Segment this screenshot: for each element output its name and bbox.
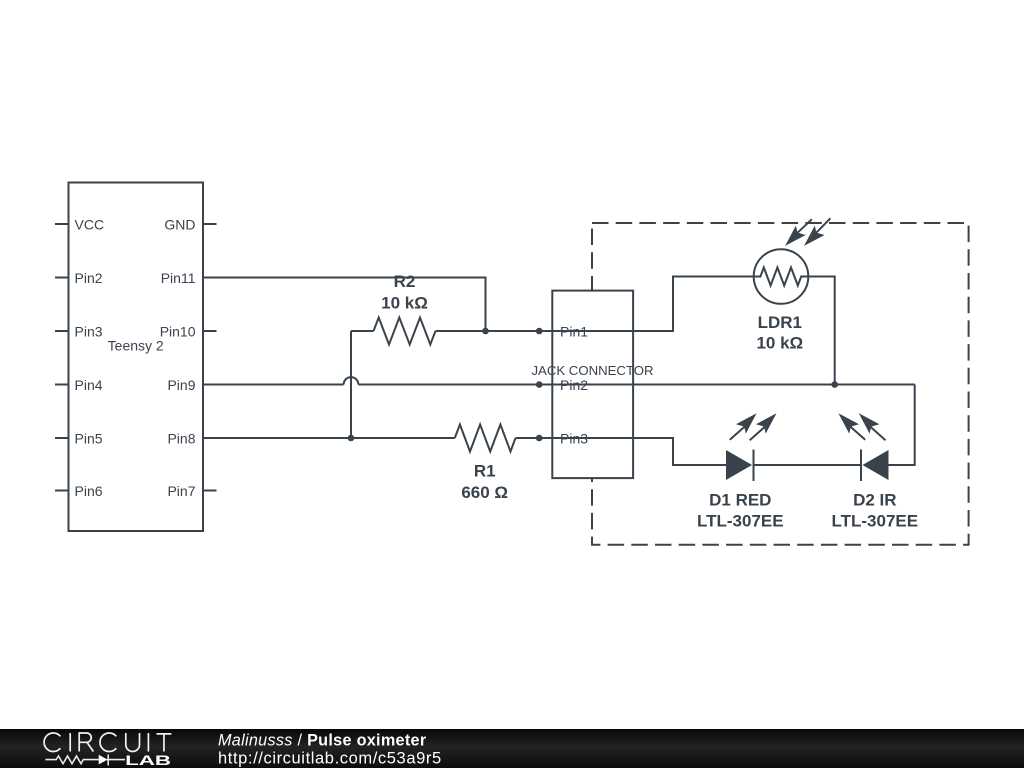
svg-text:VCC: VCC <box>75 216 105 232</box>
diode D1 triangle <box>726 450 752 480</box>
photoresistor LDR1 circle <box>754 249 809 304</box>
wire Pin9 to jack Pin2 with hop <box>203 384 344 386</box>
svg-text:GND: GND <box>164 216 195 232</box>
svg-text:Pin2: Pin2 <box>75 270 103 286</box>
wire Pin11 to R2 right node <box>203 278 486 332</box>
pin Pin6 stub <box>55 490 69 492</box>
LDR1 arrowhead 1 <box>785 226 806 246</box>
logo CIRCUIT text <box>44 733 171 752</box>
D2 arrowhead 2 <box>859 413 880 433</box>
pin Pin4 stub <box>55 384 69 386</box>
pin GND stub <box>203 223 217 225</box>
svg-text:Malinusss / Pulse oximeter: Malinusss / Pulse oximeter <box>218 732 427 750</box>
pin Pin2 stub <box>55 277 69 279</box>
D2 arrowhead 1 <box>838 413 859 433</box>
svg-text:http://circuitlab.com/c53a9r5: http://circuitlab.com/c53a9r5 <box>218 750 442 768</box>
pin VCC stub <box>55 223 69 225</box>
svg-text:Pin4: Pin4 <box>75 377 103 393</box>
svg-text:660 Ω: 660 Ω <box>461 483 508 502</box>
LDR1 arrowhead 2 <box>804 226 825 246</box>
dashed enclosure box <box>592 223 969 545</box>
pin Pin5 stub <box>55 437 69 439</box>
logo diode triangle <box>99 755 108 765</box>
svg-text:Pin5: Pin5 <box>75 430 103 446</box>
logo squiggle resistor-diode <box>45 755 125 766</box>
pin Pin3 stub <box>55 330 69 332</box>
svg-text:Pin6: Pin6 <box>75 483 103 499</box>
wire hop over vertical <box>344 377 359 384</box>
wire R2 right lead to jack Pin1 <box>436 330 553 332</box>
wire Pin8 to R1 <box>203 437 455 439</box>
LDR1 light arrow 2 line <box>814 218 831 235</box>
resistor R1 zigzag <box>455 425 516 452</box>
wire vertical R2 left to Pin8 net <box>350 331 352 438</box>
pin Pin10 stub <box>203 330 217 332</box>
junction node R2 right <box>482 328 489 335</box>
svg-text:Pin2: Pin2 <box>560 377 588 393</box>
svg-text:Pin3: Pin3 <box>75 323 103 339</box>
pin Pin7 stub <box>203 490 217 492</box>
wire LDR right to Pin2 net <box>808 277 834 385</box>
wire right vertical down to D2 <box>889 385 915 466</box>
wire jack Pin1 inside <box>552 330 633 332</box>
LDR1 internal resistor zigzag <box>754 268 809 286</box>
wire jack Pin3 to D1 <box>633 438 726 465</box>
svg-text:10 kΩ: 10 kΩ <box>756 333 803 352</box>
LDR1 light arrow 1 line <box>795 219 812 235</box>
D2 arrow 2 line <box>869 426 885 441</box>
wire jack Pin3 inside <box>552 437 633 439</box>
D1 arrow 2 line <box>750 426 766 441</box>
IC U1 Teensy 2 body <box>69 183 204 532</box>
svg-text:D1 RED: D1 RED <box>709 491 771 510</box>
wire R1 to jack Pin3 <box>516 437 553 439</box>
D2 arrow 1 line <box>849 425 865 440</box>
svg-text:Pin1: Pin1 <box>560 323 588 339</box>
junction node jack Pin3 <box>536 435 543 442</box>
svg-text:Pin8: Pin8 <box>167 430 195 446</box>
wire D1 to D2 <box>754 464 862 466</box>
junction node jack Pin2 <box>536 381 543 388</box>
junction node jack Pin1 <box>536 328 543 335</box>
resistor R2 zigzag <box>374 318 436 345</box>
wire jack pins across body <box>552 331 633 438</box>
wire jack Pin2 inside <box>552 384 633 386</box>
diode D2 cathode bar <box>860 450 862 482</box>
svg-text:Pin10: Pin10 <box>160 323 196 339</box>
svg-text:Pin7: Pin7 <box>167 483 195 499</box>
svg-text:D2 IR: D2 IR <box>853 491 896 510</box>
svg-text:Pin9: Pin9 <box>167 377 195 393</box>
svg-text:Pin3: Pin3 <box>560 430 588 446</box>
D1 arrowhead 2 <box>756 413 777 433</box>
svg-text:LAB: LAB <box>125 752 171 768</box>
wire jack Pin1 to LDR <box>633 277 754 332</box>
svg-text:Teensy 2: Teensy 2 <box>108 338 164 354</box>
D1 arrow 1 line <box>730 425 746 440</box>
svg-text:10 kΩ: 10 kΩ <box>381 294 428 313</box>
junction node LDR/Pin2 <box>831 381 838 388</box>
svg-text:Pin11: Pin11 <box>161 270 196 286</box>
wire R2 left lead <box>351 330 374 332</box>
junction node Pin8/R2 <box>348 435 355 442</box>
diode D2 triangle <box>863 450 889 480</box>
svg-text:R1: R1 <box>474 461 496 480</box>
D1 arrowhead 1 <box>736 413 757 433</box>
svg-text:LTL-307EE: LTL-307EE <box>832 512 919 531</box>
jack connector body <box>552 291 633 479</box>
diode D1 cathode bar <box>753 450 755 482</box>
wire hop to right vertical <box>358 384 914 386</box>
svg-text:JACK CONNECTOR: JACK CONNECTOR <box>531 363 653 378</box>
svg-text:LTL-307EE: LTL-307EE <box>697 512 784 531</box>
svg-text:R2: R2 <box>394 272 416 291</box>
svg-text:LDR1: LDR1 <box>758 313 802 332</box>
